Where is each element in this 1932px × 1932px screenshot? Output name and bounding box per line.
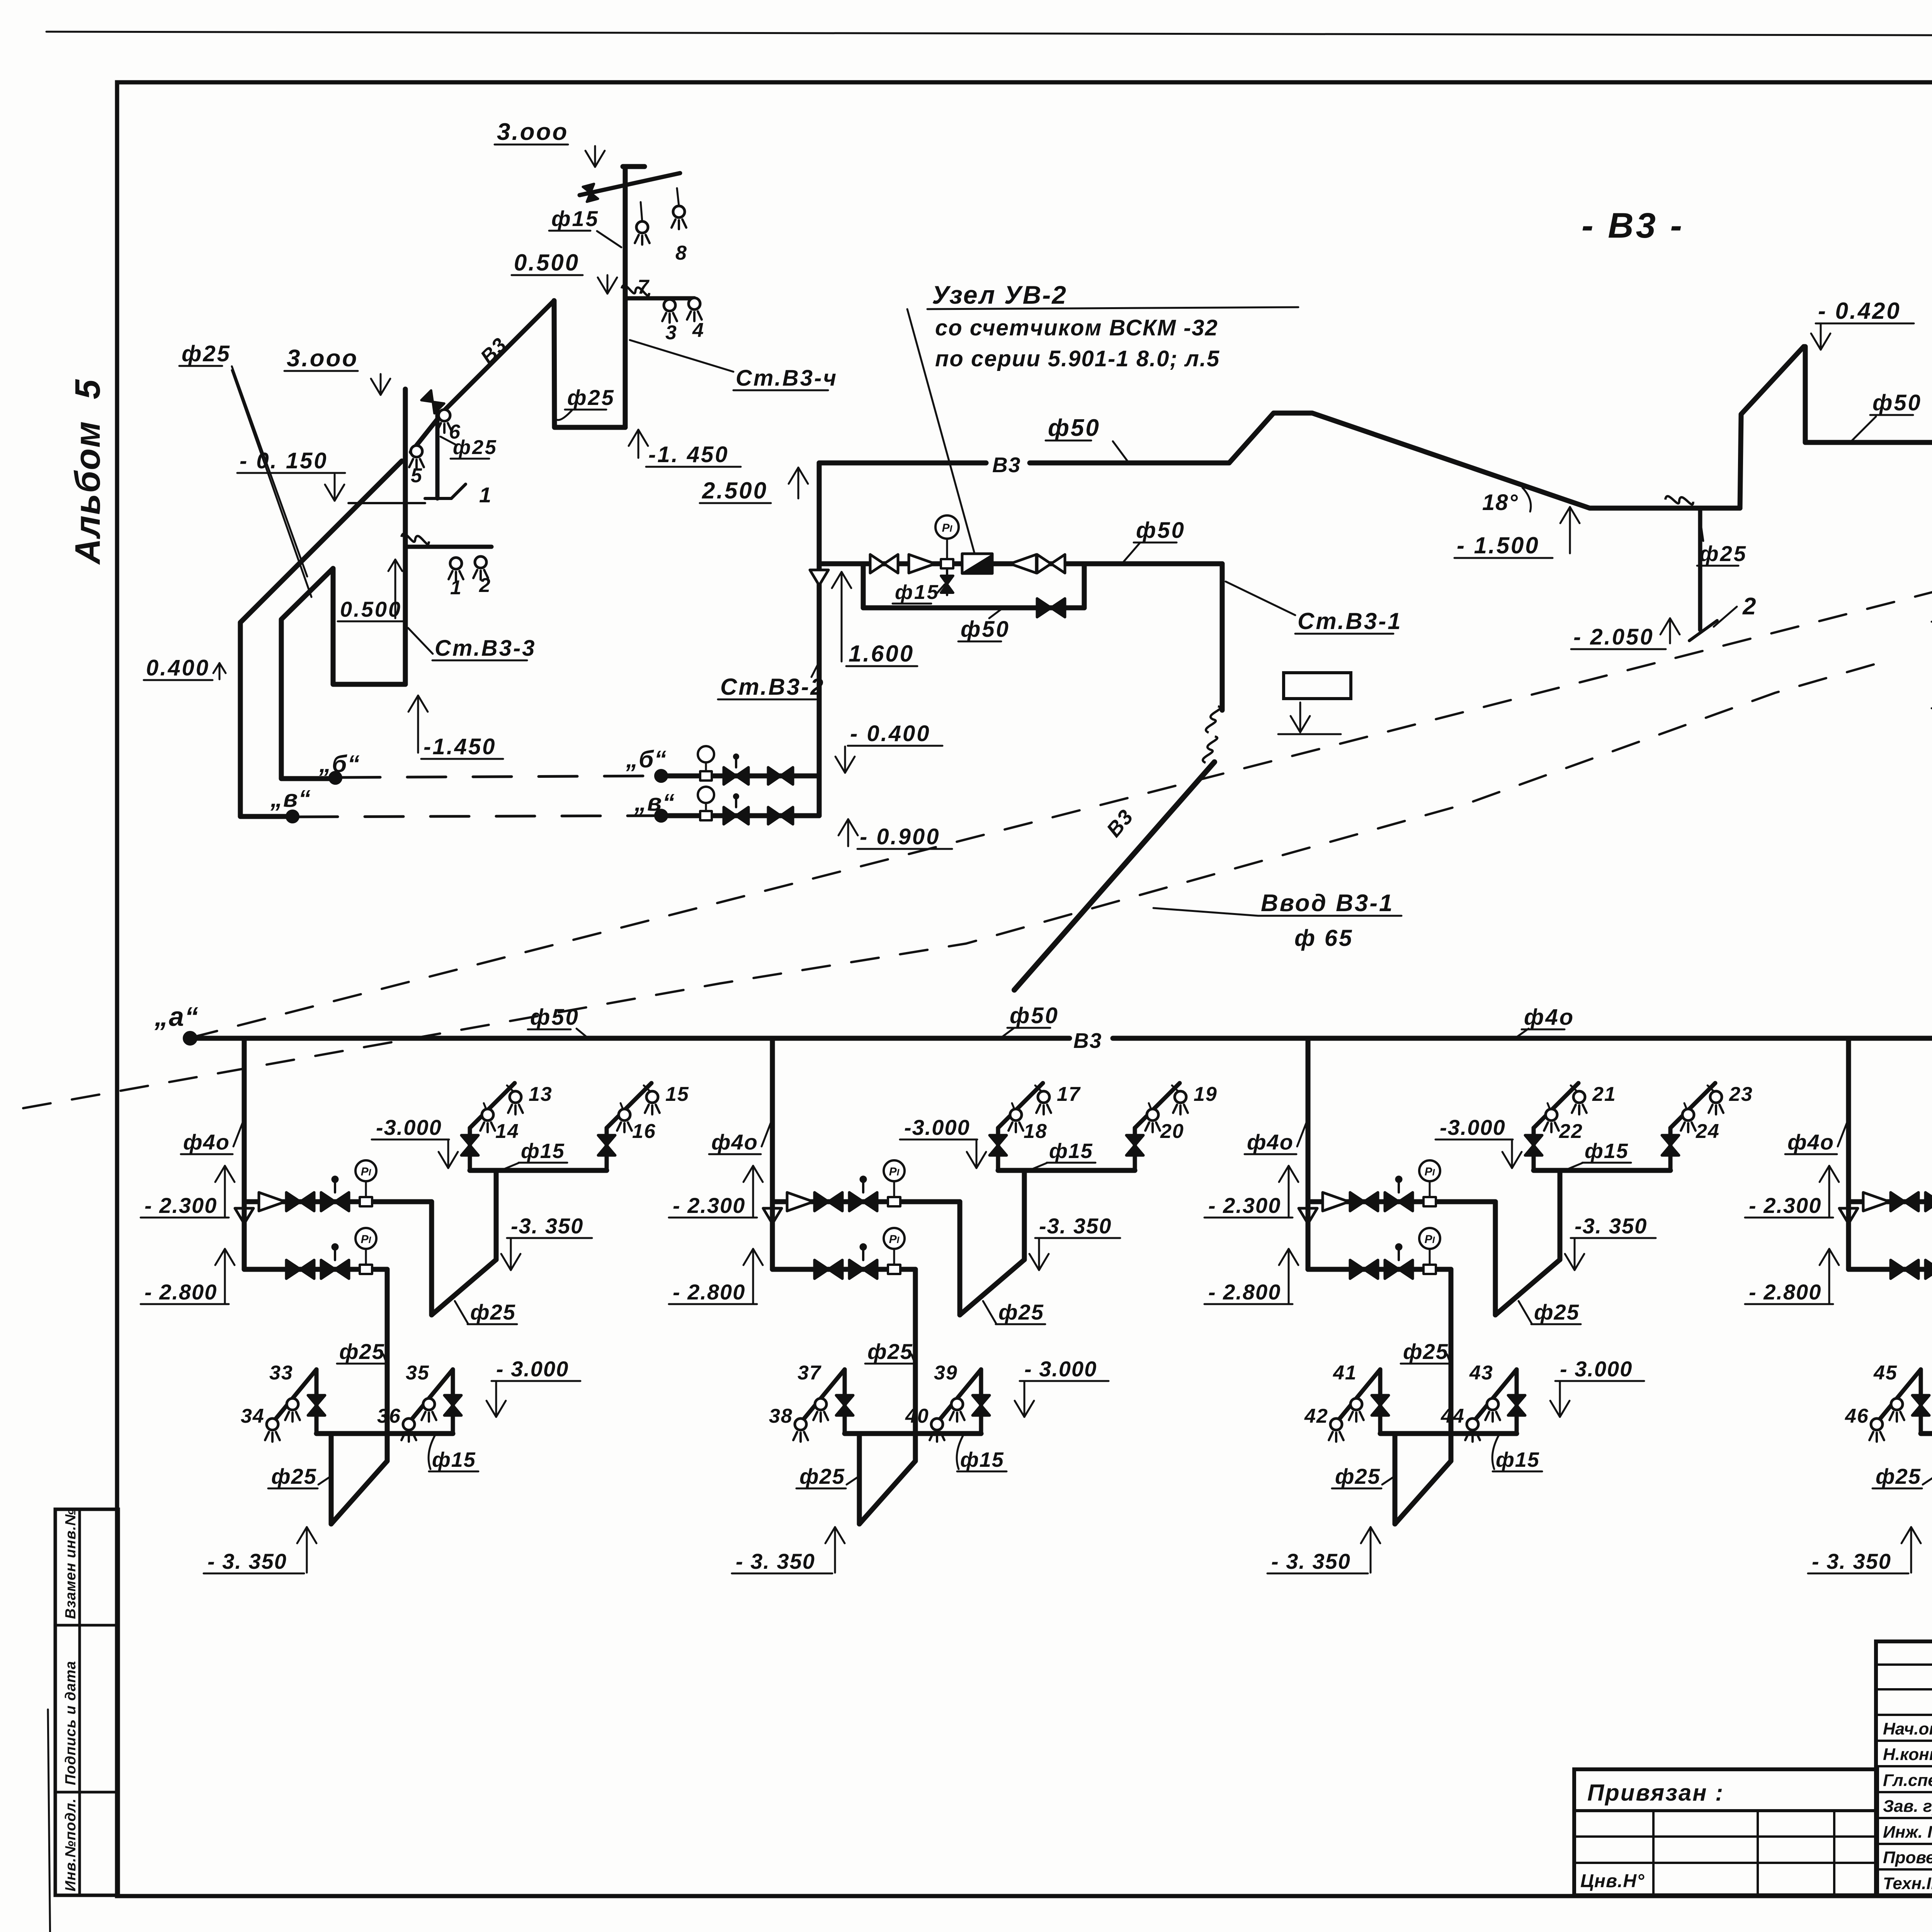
svg-text:ф50: ф50	[1048, 415, 1100, 441]
elevation box blank	[1284, 673, 1351, 699]
node b left dot	[329, 772, 342, 784]
svg-text:PI: PI	[889, 1233, 900, 1246]
sprinkler diagonal 7-8	[580, 173, 680, 195]
unit1 valve right lower branch	[444, 1395, 461, 1405]
unit2 sprinkler 40	[931, 1418, 943, 1430]
svg-text:ф4о: ф4о	[1524, 1005, 1575, 1030]
gauge on row v	[700, 811, 712, 820]
arrow -0.900	[847, 819, 849, 846]
unit2 sprinkler 38	[795, 1418, 806, 1430]
svg-text:ф25: ф25	[453, 436, 498, 459]
unit2 leader f25 drop	[912, 1354, 916, 1367]
unit3 sprinkler 42	[1330, 1418, 1342, 1430]
unit1 arrow -3.000 lower	[495, 1382, 497, 1417]
svg-text:3.ооо: 3.ооо	[287, 345, 358, 372]
station St.V3-3 riser	[403, 389, 408, 684]
wire upper main V3 line left segment	[819, 461, 986, 466]
svg-text:- 3. 350: - 3. 350	[207, 1549, 287, 1573]
svg-text:-1.450: -1.450	[423, 734, 496, 759]
svg-text:ф50: ф50	[961, 617, 1010, 642]
unit1 sprinkler 34	[267, 1418, 278, 1430]
pipe break on 1-2 stub	[401, 530, 429, 549]
svg-text:- 0.420: - 0.420	[1818, 298, 1901, 324]
branch 1-2 stub	[405, 545, 492, 549]
unit2 gate valve upper row	[815, 1192, 828, 1211]
valve on 7-8 diagonal	[583, 184, 598, 202]
svg-text:ф25: ф25	[1403, 1339, 1449, 1364]
svg-text:34: 34	[241, 1405, 265, 1427]
svg-text:ф25: ф25	[998, 1300, 1044, 1324]
unit1 sprinkler 14	[482, 1109, 493, 1121]
arrow -1.450 right	[638, 430, 639, 458]
unit1 leader f25 diagonal	[455, 1301, 468, 1324]
dashed row b	[342, 776, 655, 777]
unit4 f40 drop pipe	[1846, 1038, 1851, 1202]
unit3 sprinkler diagonal left upper	[1534, 1083, 1578, 1128]
svg-text:PI: PI	[1425, 1233, 1435, 1246]
svg-text:0.400: 0.400	[146, 655, 210, 680]
leader f50 bypass	[989, 609, 1002, 618]
unit2 funnel	[763, 1208, 782, 1224]
unit2 sprinkler diagonal right upper	[1135, 1083, 1180, 1128]
svg-text:17: 17	[1057, 1083, 1081, 1105]
unit3 sprinkler 24	[1682, 1109, 1694, 1121]
wire meter bypass up right	[1082, 564, 1087, 608]
signature row line 3	[1876, 1791, 1932, 1793]
valve on bypass	[1037, 599, 1051, 617]
svg-text:Подпись и дата: Подпись и дата	[63, 1661, 79, 1785]
privyazan box outer	[1574, 1769, 1877, 1895]
unit2 sprinkler diagonal right lower	[935, 1369, 981, 1425]
svg-text:Альбом 5: Альбом 5	[68, 379, 107, 565]
svg-text:Ввод В3-1: Ввод В3-1	[1261, 890, 1394, 917]
signature row line 1	[1876, 1740, 1932, 1742]
sprinkler 4	[689, 298, 700, 310]
unit1 lower sprinkler branch	[316, 1431, 453, 1436]
wire St.V3-4 top stub	[623, 164, 645, 169]
svg-text:- 3. 350: - 3. 350	[736, 1549, 815, 1573]
funnel on St.V3-2 riser	[810, 570, 828, 585]
svg-text:Н.контр: Н.контр	[1883, 1745, 1932, 1764]
svg-text:4: 4	[692, 319, 704, 342]
signature table empty row line 3	[1876, 1714, 1932, 1716]
unit1 upper branch left riser	[468, 1128, 472, 1170]
unit3 gate valve upper row	[1350, 1192, 1364, 1211]
unit2 gauge lower row	[888, 1265, 900, 1274]
sprinkler 3	[664, 299, 675, 311]
node v left dot	[286, 810, 299, 823]
svg-text:16: 16	[632, 1120, 656, 1143]
svg-text:- 1.500: - 1.500	[1457, 532, 1540, 558]
svg-text:8: 8	[675, 242, 687, 264]
arrow 1.600	[841, 572, 843, 662]
unit1 below branch diagonal	[331, 1461, 387, 1524]
station St.V3-2 riser	[817, 463, 822, 816]
unit3 sprinkler 21	[1573, 1091, 1585, 1103]
svg-text:-3.000: -3.000	[1440, 1115, 1506, 1139]
unit2 valve right upper branch	[1126, 1135, 1143, 1145]
leader f50 lower 1	[577, 1029, 587, 1037]
svg-text:- 0.400: - 0.400	[850, 721, 931, 746]
gauge on row b	[700, 771, 712, 781]
sprinkler 5	[411, 446, 422, 457]
unit1 valve right upper branch	[598, 1135, 615, 1145]
unit2 stem valve lower row	[849, 1260, 863, 1279]
unit1 sprinkler diagonal left lower	[271, 1369, 316, 1425]
node v right dot	[655, 810, 667, 822]
unit2 below branch diagonal	[859, 1461, 915, 1524]
unit3 leader f25 diagonal	[1519, 1301, 1532, 1324]
unit4 stem valve lower row	[1925, 1260, 1932, 1279]
leader St.V3-2	[811, 659, 821, 677]
unit1 upper sprinkler branch	[470, 1168, 607, 1173]
check valve meter outlet	[1010, 554, 1036, 573]
svg-text:Ст.В3-3: Ст.В3-3	[435, 636, 536, 661]
svg-text:-3.000: -3.000	[904, 1115, 970, 1139]
unit3 leader f15 lower	[1492, 1435, 1499, 1469]
left strip divider column	[78, 1509, 81, 1895]
svg-text:ф15: ф15	[960, 1448, 1004, 1471]
unit2 pipe funnel to lower row	[770, 1202, 775, 1269]
sheet left edge line (lower part)	[48, 1709, 50, 1932]
sprinkler 8	[673, 206, 685, 218]
leader f50 lower 2	[1001, 1028, 1014, 1038]
svg-text:В3: В3	[992, 453, 1021, 477]
unit1 valve left upper branch	[461, 1135, 478, 1145]
unit1 sprinkler 16	[619, 1109, 630, 1121]
wire meter node main row	[819, 561, 1222, 566]
unit3 arrow -3.000 lower	[1559, 1382, 1561, 1417]
svg-text:PI: PI	[361, 1165, 372, 1178]
svg-text:43: 43	[1469, 1362, 1493, 1384]
unit3 sprinkler 44	[1467, 1418, 1478, 1430]
sprinkler 6	[439, 410, 450, 421]
unit2 sprinkler 39	[951, 1398, 963, 1410]
leader f15 meter drain	[937, 584, 945, 593]
signature table empty row line 1	[1876, 1663, 1932, 1666]
pipe break St.V3-1 lower	[1203, 736, 1217, 763]
wire row v right solid	[661, 813, 819, 818]
signature row line 4	[1876, 1817, 1932, 1819]
unit3 leader f25 drop	[1447, 1354, 1452, 1367]
svg-text:ф15: ф15	[432, 1448, 476, 1471]
unit1 sprinkler 15	[646, 1091, 658, 1103]
left strip row line 1	[55, 1624, 118, 1627]
unit2 sprinkler diagonal left upper	[998, 1083, 1043, 1128]
svg-text:PI: PI	[361, 1233, 372, 1246]
svg-text:-1. 450: -1. 450	[648, 442, 729, 467]
privyazan header line	[1574, 1809, 1877, 1812]
svg-text:- 3. 350: - 3. 350	[1271, 1549, 1351, 1573]
unit2 upper branch left riser	[996, 1128, 1000, 1170]
unit1 sprinkler diagonal left upper	[470, 1083, 515, 1128]
arrow -0.150	[334, 474, 336, 501]
leader Vvod V3-1	[1153, 908, 1258, 916]
svg-text:- В3 -: - В3 -	[1582, 206, 1684, 245]
check valve meter inlet	[909, 554, 935, 573]
unit2 check valve upper row	[787, 1192, 813, 1211]
signature table outer	[1876, 1641, 1932, 1895]
unit2 leader f15 upper	[1029, 1163, 1048, 1170]
svg-text:20: 20	[1160, 1120, 1184, 1143]
unit1 sprinkler 13	[510, 1091, 521, 1103]
wire U-bend St.V3-4	[554, 301, 625, 427]
unit1 sprinkler diagonal right lower	[407, 1369, 453, 1425]
svg-text:39: 39	[934, 1362, 958, 1384]
svg-text:„а“: „а“	[154, 1002, 199, 1032]
svg-text:Ст.В3-2: Ст.В3-2	[720, 674, 825, 700]
arrow -0.400	[844, 747, 846, 773]
leader f25 pair b	[232, 370, 311, 597]
svg-text:„б“: „б“	[626, 746, 667, 773]
arrow -2.050 mid	[1669, 618, 1671, 643]
svg-text:2: 2	[1742, 593, 1757, 620]
unit1 lower valve row	[244, 1267, 387, 1272]
unit2 f40 leader	[762, 1121, 772, 1146]
dashed line a-a	[190, 443, 1932, 1038]
unit4 pipe funnel to lower row	[1846, 1202, 1851, 1269]
unit4 sprinkler 46	[1871, 1418, 1883, 1430]
unit2 lower branch left riser	[843, 1369, 847, 1434]
wire f25 drop to outlet 2	[1698, 508, 1702, 630]
left strip row line 2	[55, 1791, 118, 1794]
svg-text:ф4о: ф4о	[183, 1130, 230, 1154]
unit1 leader f15 lower	[429, 1435, 435, 1469]
unit4 lower valve row	[1849, 1267, 1932, 1272]
svg-text:ф25: ф25	[1335, 1464, 1381, 1488]
unit1 upper row corner drop	[429, 1202, 434, 1315]
svg-text:44: 44	[1440, 1405, 1465, 1427]
svg-text:33: 33	[269, 1362, 293, 1384]
unit1 f40 drop pipe	[242, 1038, 247, 1202]
arrow -1.450 left	[417, 696, 419, 753]
unit2 upper sprinkler branch	[998, 1168, 1135, 1173]
svg-text:ф15: ф15	[1049, 1139, 1093, 1163]
unit2 leader f25 diagonal	[983, 1301, 997, 1324]
svg-text:ф50: ф50	[1010, 1003, 1059, 1028]
svg-text:1: 1	[450, 577, 462, 599]
unit2 sprinkler 19	[1175, 1091, 1186, 1103]
needle valve f15 on drain	[946, 568, 948, 595]
unit2 sprinkler 18	[1010, 1109, 1022, 1121]
unit1 lower row corner drop	[385, 1269, 390, 1461]
unit1 sprinkler 36	[403, 1418, 415, 1430]
svg-text:ф 65: ф 65	[1294, 925, 1354, 951]
unit3 lower sprinkler branch	[1380, 1431, 1517, 1436]
unit2 upper valve row	[772, 1199, 960, 1204]
pressure gauge meter node	[941, 559, 953, 568]
tick 2 outlet	[1689, 621, 1717, 641]
signature table empty row line 2	[1876, 1688, 1932, 1690]
svg-text:38: 38	[769, 1405, 793, 1427]
node b right dot	[655, 770, 667, 782]
svg-text:19: 19	[1194, 1083, 1218, 1105]
unit3 lower branch right riser	[1515, 1369, 1519, 1434]
sprinkler 2	[475, 556, 486, 568]
unit4 sprinkler diagonal left lower	[1875, 1369, 1921, 1425]
svg-text:- 2.050: - 2.050	[1573, 624, 1654, 650]
svg-text:Провер.: Провер.	[1883, 1848, 1932, 1867]
leader f50 meter outlet	[1122, 543, 1140, 563]
unit2 lower sprinkler branch	[845, 1431, 981, 1436]
unit1 pipe funnel to lower row	[242, 1202, 247, 1269]
unit4 gate valve upper row	[1891, 1192, 1905, 1211]
unit3 f40 drop pipe	[1306, 1038, 1311, 1202]
unit2 below branch drop vertical	[857, 1434, 862, 1524]
svg-text:Гл.спец.: Гл.спец.	[1883, 1771, 1932, 1790]
svg-text:Зав. гр.: Зав. гр.	[1883, 1797, 1932, 1816]
leader f50 upper left	[1113, 441, 1128, 462]
svg-text:-3. 350: -3. 350	[1039, 1214, 1112, 1238]
unit3 check valve upper row	[1323, 1192, 1349, 1211]
unit1 check valve upper row	[259, 1192, 285, 1211]
unit1 stem valve upper row	[321, 1192, 335, 1211]
station St.V3-4 riser	[623, 167, 628, 427]
privyazan col 2	[1757, 1811, 1759, 1895]
sprinkler 1	[450, 558, 462, 569]
unit2 stem valve upper row	[849, 1192, 863, 1211]
unit3 sprinkler diagonal right lower	[1471, 1369, 1517, 1425]
svg-text:Узел УВ-2: Узел УВ-2	[932, 281, 1067, 309]
unit1 below branch drop vertical	[329, 1434, 334, 1524]
arrow 2.500	[798, 468, 799, 498]
svg-text:„в“: „в“	[634, 789, 675, 816]
svg-text:Инв.№подл.: Инв.№подл.	[63, 1798, 79, 1891]
unit2 valve left lower branch	[836, 1395, 853, 1405]
svg-text:1.600: 1.600	[849, 641, 914, 667]
svg-text:-3. 350: -3. 350	[1575, 1214, 1647, 1238]
arc 18deg	[1522, 488, 1531, 512]
unit1 leader f25 drop	[383, 1354, 388, 1367]
leader f25 U-bend	[556, 410, 572, 420]
svg-text:15: 15	[665, 1083, 689, 1105]
leader St.V3-4	[630, 340, 733, 372]
unit4 arrow -2.800	[1828, 1249, 1830, 1303]
unit2 lower branch right riser	[979, 1369, 983, 1434]
unit3 lower valve row	[1308, 1267, 1451, 1272]
svg-text:Техн.Iк.: Техн.Iк.	[1883, 1874, 1932, 1893]
node a lower dot	[184, 1032, 197, 1045]
svg-text:- 2.300: - 2.300	[1749, 1193, 1821, 1218]
pipe break on 3-4 stub	[621, 281, 650, 300]
svg-text:1: 1	[479, 483, 492, 507]
privyazan row line 1	[1574, 1835, 1877, 1838]
unit2 gauge upper row	[888, 1197, 900, 1206]
svg-text:- 3.000: - 3.000	[496, 1357, 569, 1381]
unit4 funnel	[1839, 1208, 1858, 1224]
svg-text:Ст.В3-ч: Ст.В3-ч	[736, 366, 838, 391]
svg-text:13: 13	[529, 1083, 553, 1105]
svg-text:ф4о: ф4о	[1247, 1130, 1294, 1154]
unit1 sprinkler diagonal right upper	[607, 1083, 651, 1128]
svg-text:40: 40	[905, 1405, 929, 1427]
svg-text:ф4о: ф4о	[711, 1130, 758, 1154]
leader St.V3-3	[408, 628, 433, 654]
sheet top edge line	[46, 32, 1932, 37]
svg-text:по серии 5.901-1 8.0; л.5: по серии 5.901-1 8.0; л.5	[935, 346, 1220, 371]
svg-text:- 0.900: - 0.900	[860, 824, 940, 849]
privyazan col 1	[1652, 1811, 1655, 1895]
unit1 arrow -2.800	[224, 1249, 226, 1303]
unit2 sprinkler 20	[1147, 1109, 1158, 1121]
svg-text:2.500: 2.500	[702, 478, 768, 503]
svg-text:- 0. 150: - 0. 150	[240, 448, 328, 473]
unit4 check valve upper row	[1863, 1192, 1889, 1211]
svg-text:41: 41	[1333, 1362, 1357, 1384]
svg-text:ф15: ф15	[551, 206, 599, 231]
leader f40 lower 3	[1515, 1029, 1529, 1038]
wire upper main V3 line left segment b	[1030, 413, 1740, 508]
svg-text:-3.000: -3.000	[376, 1115, 442, 1139]
unit1 upper row diagonal	[432, 1260, 496, 1315]
sprinkler diagonal 5-6 with V3 from peak	[411, 301, 554, 452]
svg-text:ф15: ф15	[895, 581, 940, 604]
unit1 leader f15 upper	[501, 1163, 519, 1170]
wire meter bypass bottom	[863, 605, 1084, 611]
svg-text:PI: PI	[889, 1165, 900, 1178]
unit2 upper branch feed drop	[1022, 1170, 1027, 1260]
unit3 valve left lower branch	[1372, 1395, 1389, 1405]
svg-text:45: 45	[1873, 1362, 1898, 1384]
privyazan col 3	[1833, 1811, 1835, 1895]
dashed row v	[299, 816, 655, 817]
unit3 arrow -2.800	[1288, 1249, 1290, 1303]
svg-text:21: 21	[1592, 1083, 1616, 1105]
svg-text:ф25: ф25	[867, 1339, 913, 1364]
left strip table frame	[55, 1509, 118, 1895]
unit3 arrow -2.300	[1288, 1166, 1290, 1217]
arrow 3.000 top	[594, 146, 596, 167]
unit2 arrow -2.300	[752, 1166, 754, 1217]
unit3 gauge upper row	[1423, 1197, 1436, 1206]
unit2 leader f15 lower	[957, 1435, 963, 1469]
arrow -1.500 upper	[1569, 507, 1571, 553]
svg-text:ф25: ф25	[339, 1339, 385, 1364]
leader f25 pair a	[232, 366, 307, 577]
signature row line 6	[1876, 1868, 1932, 1871]
arrow 0.400	[219, 663, 221, 679]
unit4 gate valve lower row	[1891, 1260, 1905, 1279]
arrow below elevation box	[1299, 702, 1301, 732]
svg-text:3.ооо: 3.ооо	[497, 119, 568, 145]
signature row line 2	[1876, 1765, 1932, 1767]
svg-text:со счетчиком ВСКМ -32: со счетчиком ВСКМ -32	[935, 315, 1218, 340]
unit3 upper valve row	[1308, 1199, 1495, 1204]
valve row v 2	[768, 807, 781, 824]
svg-text:ф25: ф25	[1699, 541, 1747, 566]
svg-text:„в“: „в“	[270, 786, 311, 812]
svg-text:23: 23	[1729, 1083, 1753, 1105]
svg-text:ф25: ф25	[182, 341, 231, 366]
svg-text:ф25: ф25	[271, 1464, 317, 1488]
svg-text:- 2.300: - 2.300	[673, 1193, 745, 1218]
unit3 sprinkler diagonal right upper	[1670, 1083, 1715, 1128]
svg-text:ф25: ф25	[1876, 1464, 1921, 1488]
wire entry Vvod V3-1 diagonal	[1014, 762, 1214, 990]
valve row v 1	[724, 807, 736, 824]
note uzel underline	[927, 307, 1298, 309]
unit2 valve left upper branch	[990, 1135, 1007, 1145]
svg-text:В3: В3	[1073, 1029, 1102, 1053]
unit4 f40 leader	[1838, 1121, 1848, 1146]
note uzel leader	[907, 309, 975, 553]
svg-text:Нач.отд.: Нач.отд.	[1883, 1719, 1932, 1738]
pipe break St.V3-1 upper	[1206, 706, 1220, 733]
svg-text:ф50: ф50	[530, 1005, 580, 1030]
unit3 upper branch right riser	[1668, 1128, 1673, 1170]
unit3 stem valve lower row	[1385, 1260, 1399, 1279]
unit1 gate valve lower row	[286, 1260, 300, 1279]
